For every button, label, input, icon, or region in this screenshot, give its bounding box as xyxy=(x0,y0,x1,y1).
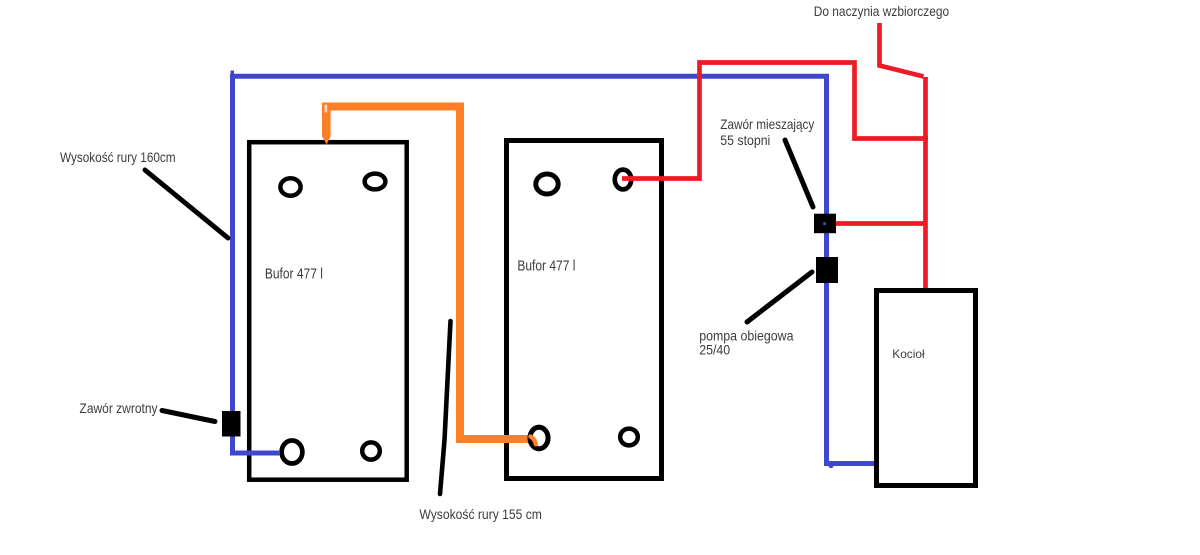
svg-text:Kocioł: Kocioł xyxy=(892,347,925,361)
svg-text:Do naczynia wzbiorczego: Do naczynia wzbiorczego xyxy=(814,3,950,19)
svg-text:pompa obiegowa: pompa obiegowa xyxy=(699,329,794,344)
svg-text:25/40: 25/40 xyxy=(699,342,730,357)
svg-text:55 stopni: 55 stopni xyxy=(720,132,770,148)
svg-text:Wysokość rury 160cm: Wysokość rury 160cm xyxy=(60,149,176,165)
svg-text:Bufor 477 l: Bufor 477 l xyxy=(265,266,323,282)
svg-text:Bufor 477 l: Bufor 477 l xyxy=(517,259,575,275)
svg-text:Zawór zwrotny: Zawór zwrotny xyxy=(80,400,158,416)
svg-text:Wysokość rury 155 cm: Wysokość rury 155 cm xyxy=(419,506,542,522)
svg-text:Zawór mieszający: Zawór mieszający xyxy=(720,116,814,132)
